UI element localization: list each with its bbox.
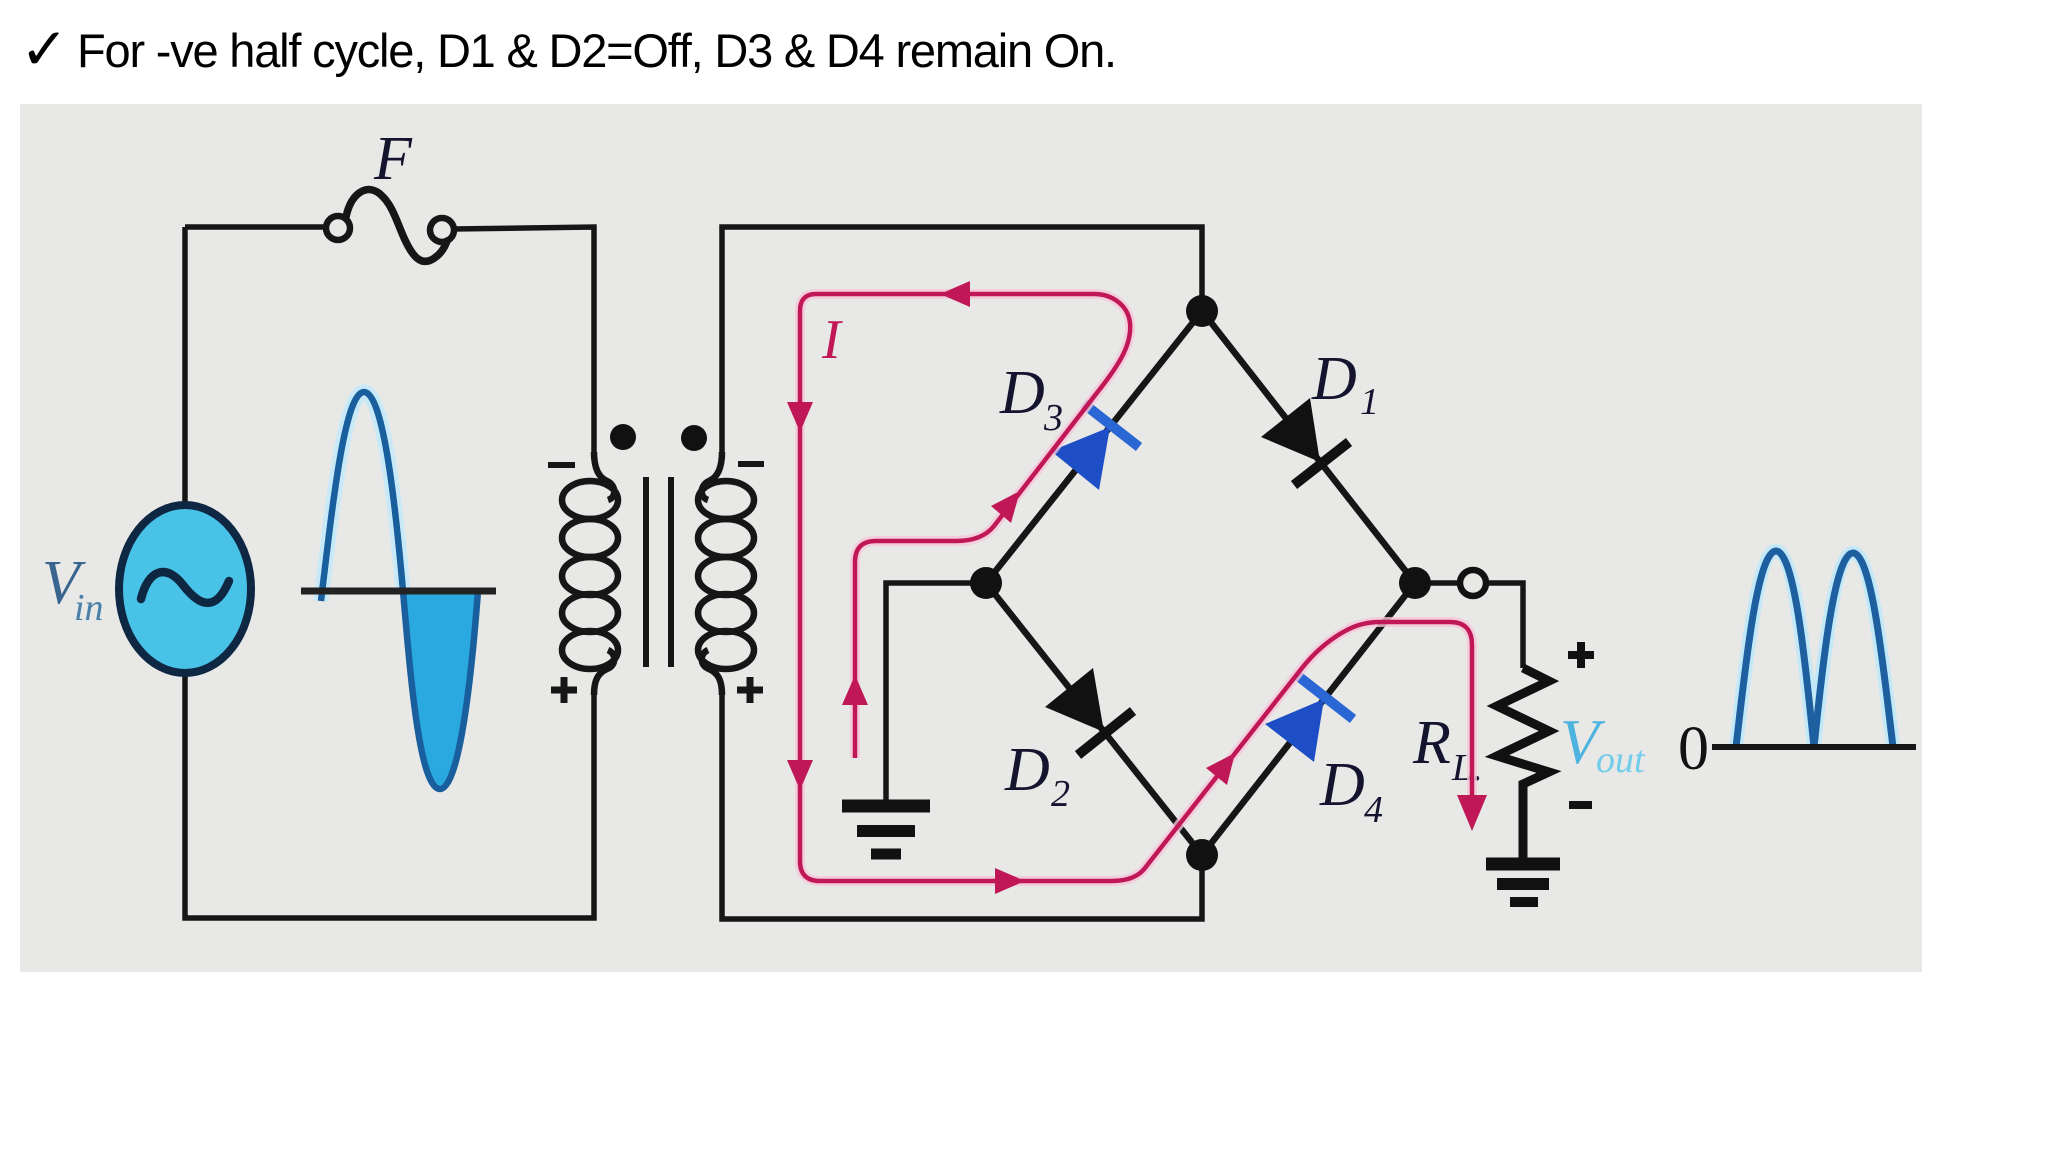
minus (Vout) [1569, 801, 1592, 809]
transformer primary coil [562, 452, 618, 695]
output waveform [1712, 551, 1916, 747]
terminal (open circle) [1460, 570, 1486, 596]
svg-text:4: 4 [1364, 789, 1383, 831]
bridge arms [986, 311, 1415, 855]
polarity minus secondary [738, 461, 764, 467]
current arrow (down, upper) [787, 402, 813, 432]
svg-text:L.: L. [1451, 747, 1483, 789]
fuse F [326, 190, 454, 262]
transformer core [646, 477, 671, 667]
current arrow (down, lower) [787, 760, 813, 790]
polarity plus secondary [737, 677, 763, 703]
svg-text:D: D [999, 359, 1045, 427]
current arrow (up D4 arm) [1206, 753, 1235, 785]
phasing dot secondary [681, 425, 707, 451]
node bottom [1186, 839, 1218, 871]
diode D1 [1261, 398, 1349, 485]
svg-text:in: in [74, 587, 104, 629]
diode D2 [1045, 668, 1133, 755]
svg-text:2: 2 [1051, 773, 1070, 815]
svg-text:For -ve half cycle, D1 & D2=Of: For -ve half cycle, D1 & D2=Off, D3 & D4… [77, 24, 1116, 77]
label Vin [42, 549, 104, 629]
svg-text:1: 1 [1360, 381, 1379, 423]
wire secondary loop [722, 227, 1202, 919]
ground (below RL) [1486, 864, 1560, 902]
node left [970, 567, 1002, 599]
wire left node to ground [886, 583, 986, 800]
current arrow (up D3 arm) [991, 491, 1020, 523]
input sine graphic [301, 392, 496, 789]
label D4 [1319, 751, 1383, 831]
svg-text:0: 0 [1678, 715, 1709, 783]
label Vout [1560, 706, 1646, 781]
wire primary loop [185, 227, 594, 918]
label D3 [999, 359, 1063, 439]
phasing dot primary [610, 424, 636, 450]
plus (Vout) [1568, 642, 1594, 668]
current path I (ground, through D3, secondary loop, through D4, to RL) [800, 294, 1472, 881]
polarity minus primary [548, 462, 575, 468]
wire right node to terminal and RL [1415, 583, 1523, 668]
title [20, 17, 1116, 82]
ground (bridge left) [842, 806, 930, 854]
source Vin [119, 505, 251, 673]
polarity plus primary [551, 677, 577, 703]
current path glow [800, 294, 1472, 881]
node top [1186, 295, 1218, 327]
svg-text:D: D [1311, 345, 1357, 413]
current arrow (right, bottom segment) [995, 868, 1025, 894]
diode D3 [1051, 404, 1139, 490]
label D1 [1311, 345, 1379, 423]
diode D4 [1265, 676, 1353, 762]
label D2 [1004, 736, 1070, 815]
resistor RL [1497, 668, 1549, 858]
svg-text:R: R [1412, 709, 1451, 777]
svg-text:out: out [1596, 739, 1646, 781]
svg-text:D: D [1319, 751, 1365, 819]
current arrow (left, top segment) [940, 281, 970, 307]
svg-text:D: D [1004, 736, 1050, 804]
current arrow (up, inner) [842, 675, 868, 705]
svg-text:F: F [373, 125, 413, 193]
current arrow (down at RL) [1457, 795, 1487, 831]
svg-text:I: I [821, 309, 843, 371]
label RL [1412, 709, 1483, 789]
svg-text:✓: ✓ [20, 17, 69, 82]
transformer secondary coil [698, 452, 754, 695]
node right [1399, 567, 1431, 599]
